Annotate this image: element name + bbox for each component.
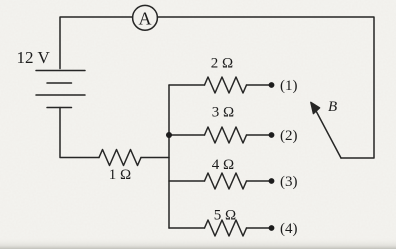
wire R3 to terminal 2 (247, 134, 271, 136)
battery cell plate long (top, +) (36, 70, 85, 72)
battery cell plate long (36, 94, 85, 96)
battery cell plate short (bottom, -) (47, 107, 72, 109)
svg-text:12 V: 12 V (17, 48, 51, 67)
battery cell plate short (47, 82, 72, 84)
resistor R5 5 ohm (205, 220, 247, 236)
switch B arrowhead (311, 102, 320, 113)
wire branch 1 left stub (169, 84, 205, 86)
terminal dot 2 (269, 132, 275, 138)
wire R5 to terminal 4 (247, 227, 271, 229)
svg-text:(1): (1) (280, 78, 298, 94)
terminal dot 3 (269, 178, 275, 184)
wire battery negative down and right to resistor R1 (60, 108, 99, 158)
svg-text:(2): (2) (280, 128, 298, 144)
wire R4 to terminal 3 (247, 180, 271, 182)
svg-text:2 Ω: 2 Ω (211, 56, 233, 72)
svg-text:1 Ω: 1 Ω (109, 167, 131, 183)
svg-text:B: B (328, 99, 337, 115)
bottom scan shadow (0, 237, 396, 249)
svg-text:4 Ω: 4 Ω (212, 157, 234, 173)
junction node on bus (166, 132, 172, 138)
wire R1 to bus node (141, 157, 169, 159)
wire from ammeter to top-right corner and down right side (157, 17, 374, 158)
resistor R4 4 ohm (205, 173, 247, 189)
svg-text:3 Ω: 3 Ω (212, 105, 234, 121)
svg-text:(3): (3) (280, 174, 298, 190)
terminal dot 1 (269, 82, 275, 88)
terminal dot 4 (269, 225, 275, 231)
resistor R2 2 ohm (205, 77, 247, 93)
svg-text:A: A (139, 8, 152, 28)
bus vertical wire (168, 85, 170, 228)
ammeter A (133, 5, 158, 30)
wire top-left from battery positive up and right to ammeter (60, 17, 133, 69)
svg-text:5 Ω: 5 Ω (214, 208, 236, 224)
resistor R1 1 ohm (99, 150, 141, 166)
resistor R3 3 ohm (205, 127, 247, 143)
svg-text:(4): (4) (280, 221, 298, 237)
wire branch 4 left stub (169, 227, 205, 229)
wire R2 to terminal 1 (247, 84, 271, 86)
switch B arm (diagonal blade) (316, 111, 341, 159)
wire branch 3 left stub (169, 180, 205, 182)
wire branch 2 left stub (169, 134, 205, 136)
